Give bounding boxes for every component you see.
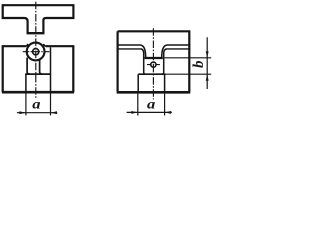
block outline rect	[118, 31, 190, 92]
svg-text:a: a	[32, 97, 41, 113]
top view stem bottom edge (thick)	[27, 32, 45, 34]
hole circle (right view)	[151, 62, 156, 67]
arrowhead pointing right at left extension	[131, 111, 138, 114]
front rect bottom edge (thick)	[2, 91, 74, 94]
ledge upper line left segment with fillet to neck wall	[118, 45, 146, 57]
neck left wall down from circle	[27, 58, 30, 75]
svg-text:a: a	[147, 97, 156, 113]
block bottom edge (thick)	[117, 91, 191, 94]
arrowhead pointing left at right extension	[165, 111, 172, 114]
hole horizontal centerline	[147, 64, 160, 66]
plateau line (slot bottom) thick part	[145, 57, 163, 59]
extension line right	[50, 94, 52, 116]
cavity right wall	[164, 74, 166, 92]
vertical center line through both left views (dash-dot)	[35, 2, 37, 99]
vertical center line (right view)	[152, 28, 154, 99]
arrowhead pointing up at cavity extension	[206, 74, 209, 81]
dimension line	[127, 111, 172, 113]
extension line left	[25, 94, 27, 116]
ledge lower line left segment	[118, 48, 142, 50]
dimension line	[17, 112, 57, 114]
fillet top edge to circle right	[43, 44, 46, 46]
ledge upper line right segment with fillet to neck wall	[162, 45, 191, 57]
cavity top line	[138, 73, 165, 75]
fillet top edge to circle left	[25, 44, 28, 46]
neck right wall down from circle	[40, 60, 43, 75]
dimension line vertical	[206, 37, 208, 89]
ledge lower line right segment	[166, 48, 190, 50]
boss circle	[27, 43, 45, 61]
extension line right	[164, 94, 166, 116]
extension line left	[137, 94, 139, 116]
cavity top line extension to b dimension	[166, 73, 212, 75]
horizontal centerline of hole	[23, 51, 50, 53]
arrowhead pointing right at left extension	[19, 111, 26, 114]
front rect left edge	[3, 46, 74, 92]
top view T-bar outline	[3, 5, 74, 33]
hole circle	[33, 49, 39, 55]
tall right edge line (cavity right wall up to top edge)	[50, 47, 52, 92]
slot neck right wall	[162, 49, 167, 74]
arrowhead pointing left at right extension	[51, 111, 58, 114]
cavity left wall	[25, 74, 27, 92]
slot neck left wall	[141, 49, 146, 74]
cavity left wall	[137, 74, 139, 92]
plateau line extension to b dimension	[165, 57, 212, 59]
cavity top line	[25, 73, 51, 75]
arrowhead pointing down at plateau extension	[206, 51, 209, 58]
svg-text:b: b	[191, 60, 207, 68]
